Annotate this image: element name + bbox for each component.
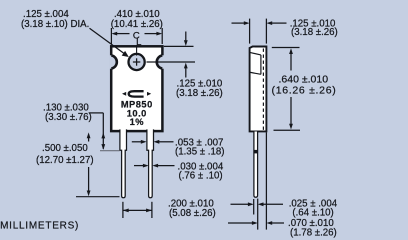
dim .200 extension lines [123, 202, 152, 218]
right lead front [147, 129, 154, 197]
lead step extension line [100, 150, 120, 152]
side view chamfer lines [250, 53, 261, 75]
dim .053 arrows [132, 140, 174, 144]
dim .640 extension lines [272, 48, 300, 131]
right corner notch [157, 55, 164, 68]
svg-text:.500 ±.050: .500 ±.050 [42, 143, 88, 154]
dia leader arrow [90, 28, 129, 57]
hidden lead line dashed [262, 49, 264, 131]
side view body [250, 46, 267, 131]
svg-text:1%: 1% [130, 117, 145, 127]
dim .410 dimension line with arrows [111, 32, 162, 36]
svg-text:(3.18 ±.26): (3.18 ±.26) [291, 27, 338, 38]
svg-text:(16.26 ±.26): (16.26 ±.26) [272, 84, 337, 96]
dim .025 extension lines [254, 199, 258, 230]
device marking MP850 [121, 100, 153, 110]
dim .640 label [272, 73, 337, 96]
centerline symbol [133, 30, 141, 48]
millimeters note [0, 221, 79, 232]
svg-text:(3.18 ±.26): (3.18 ±.26) [176, 88, 223, 99]
dim .070 arrows [228, 221, 284, 225]
dim .030 arrows [134, 164, 175, 168]
svg-text:(.76 ± .10): (.76 ± .10) [179, 170, 223, 181]
dim .130 leader and arrows [89, 113, 105, 150]
side width extension lines [250, 19, 267, 44]
side view lead [254, 132, 258, 198]
svg-text:(3.30 ±.76): (3.30 ±.76) [45, 112, 92, 123]
svg-text:(1.78 ±.26): (1.78 ±.26) [290, 228, 337, 239]
side width label .125 [290, 18, 338, 38]
svg-text:(3.18 ±.10) DIA.: (3.18 ±.10) DIA. [21, 19, 89, 30]
dim .053 label [175, 138, 224, 158]
device marking 10.0 [127, 108, 147, 118]
svg-text:(5.08 ±.26): (5.08 ±.26) [169, 208, 216, 219]
device marking 1% [130, 117, 145, 127]
svg-text:(MILLIMETERS): (MILLIMETERS) [0, 221, 79, 232]
hole position label .125 [176, 79, 223, 100]
dim .030 label [178, 162, 224, 182]
left corner notch [110, 55, 117, 68]
dim .410 label [111, 9, 163, 30]
centerline to hole [136, 45, 138, 55]
svg-text:(10.41 ±.26): (10.41 ±.26) [111, 19, 163, 30]
dim .070 label [288, 218, 337, 239]
dia label .125 [21, 9, 89, 30]
front view body [111, 46, 162, 131]
dim .410 extension lines [111, 28, 162, 44]
svg-text:(1.35 ± .18): (1.35 ± .18) [175, 146, 224, 157]
dim .130 label [43, 102, 92, 123]
dim .500 label [36, 143, 94, 166]
dim .640 dimension line with arrows [289, 48, 293, 129]
left lead front [120, 129, 127, 197]
mounting hole [129, 54, 145, 70]
dim .500 dimension line with arrows [87, 132, 91, 196]
dim .025 arrows [231, 202, 284, 206]
lead end extension line [76, 196, 120, 198]
side width dimension arrows [232, 21, 287, 25]
dim .025 label [289, 199, 338, 219]
hole position dimension arrows [184, 32, 188, 78]
hole position extension lines [147, 46, 196, 62]
svg-text:(12.70 ±1.27): (12.70 ±1.27) [36, 155, 94, 166]
dim .200 dimension line with arrows [123, 209, 152, 213]
dim .070 extension line [265, 132, 267, 229]
Caddock logo [122, 91, 151, 96]
dim .200 label [168, 199, 216, 219]
svg-text:L: L [136, 37, 141, 48]
